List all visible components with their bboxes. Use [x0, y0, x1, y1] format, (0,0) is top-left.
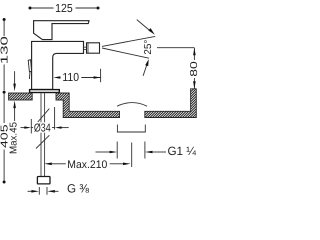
svg-text:Max.210: Max.210	[67, 159, 107, 171]
dimension 80 line	[193, 48, 195, 89]
svg-text:Ø34: Ø34	[34, 123, 51, 135]
dimension 125 left dot	[29, 7, 32, 10]
svg-text:125: 125	[55, 2, 73, 15]
G3/8 right extension tick	[46, 187, 48, 195]
svg-text:80: 80	[189, 61, 200, 77]
aerator block	[87, 43, 100, 53]
G1 1/4 left extension tick	[116, 142, 118, 159]
right deck hatched section with end column	[145, 89, 197, 118]
G3/8 right arrow	[47, 190, 58, 193]
dot middle 130/405	[3, 91, 6, 94]
diameter 34 left arrow	[21, 126, 32, 128]
dimension 110 left arrowhead	[53, 76, 60, 78]
svg-text:110: 110	[62, 71, 79, 84]
svg-text:G1 ¼: G1 ¼	[168, 144, 197, 158]
dimension 80 down arrowhead	[193, 81, 196, 89]
dimension 110 label	[62, 71, 81, 84]
hose end connector G3/8	[37, 177, 50, 184]
dimension 125 line	[32, 7, 97, 9]
waste control rod	[28, 60, 31, 79]
G3/8 left arrow	[28, 190, 40, 193]
dimension Max.45 upper leader	[14, 71, 16, 84]
dot top of 130	[3, 18, 6, 21]
Max.45 down arrowhead	[13, 84, 16, 92]
svg-text:25°: 25°	[143, 40, 154, 55]
svg-text:Max.45: Max.45	[9, 122, 20, 154]
spout height reference line	[157, 47, 194, 49]
diameter 34 left extension line	[30, 119, 32, 134]
diameter 34 right arrow	[55, 126, 69, 128]
drain centerline	[131, 143, 133, 168]
G3/8 left extension tick	[38, 187, 40, 195]
dimension Max.45 lower leader	[14, 108, 16, 122]
lower angle arrow	[143, 59, 149, 76]
G1 1/4 right arrow	[145, 151, 166, 154]
dimension Max.210 left arrow	[44, 163, 66, 166]
spray nozzle arc	[117, 103, 147, 107]
dimension 130/405 vertical line	[3, 21, 5, 181]
dimension Max.210 right arrow	[110, 163, 131, 166]
drain hole bracket	[117, 125, 145, 133]
dimension 110 line	[60, 69, 101, 83]
spout angle lower line	[102, 48, 149, 58]
diameter 34 dimension stubs	[31, 127, 54, 129]
right deck hatched section with step	[56, 93, 120, 118]
diameter 34 break mark upper	[38, 109, 50, 122]
dimension 80 up arrowhead	[193, 48, 196, 56]
spout angle upper line	[102, 36, 155, 46]
svg-text:G ⅜: G ⅜	[67, 181, 90, 195]
svg-text:130: 130	[0, 35, 10, 64]
upper angle arrow	[137, 20, 155, 35]
dot bottom of 405	[3, 181, 6, 184]
diameter 34 label	[33, 122, 51, 134]
faucet body and spout	[32, 41, 84, 89]
dimension 125 right dot	[97, 7, 100, 10]
diameter 34 right extension line	[54, 107, 56, 130]
G1 1/4 left arrow	[96, 151, 118, 154]
dimension 110 right arrowhead	[94, 76, 101, 78]
left deck hatched section	[9, 93, 33, 100]
supply hoses	[41, 93, 45, 177]
G1 1/4 right extension tick	[144, 142, 146, 159]
base flange	[30, 90, 60, 93]
faucet handle lever	[34, 21, 89, 40]
Max.45 up arrowhead	[13, 101, 16, 109]
diameter 34 break mark lower	[36, 135, 49, 148]
spout joint marks	[84, 47, 87, 49]
